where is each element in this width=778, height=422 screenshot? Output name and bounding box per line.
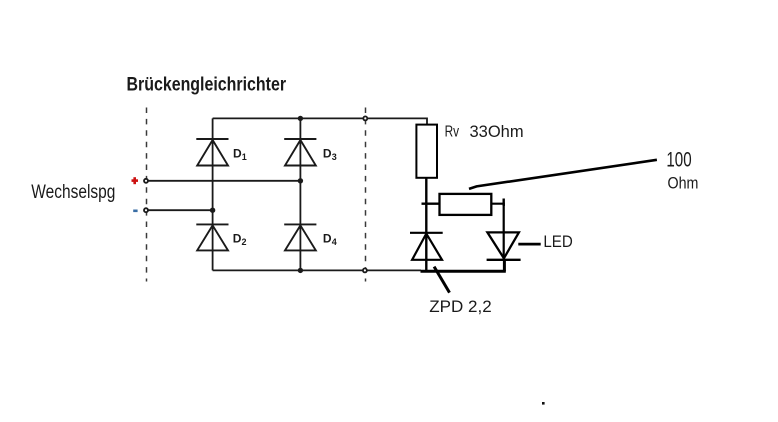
pointer line to LED label [518,243,540,246]
svg-text:D: D [323,232,332,246]
dashed boundary line left [146,108,148,282]
svg-text:Wechselspg: Wechselspg [31,180,115,202]
svg-text:ZPD 2,2: ZPD 2,2 [429,297,491,316]
wire: thick bottom rail right section [421,270,506,273]
svg-text:Brückengleichrichter: Brückengleichrichter [127,73,287,95]
minus polarity mark [133,210,137,213]
terminal circle - [144,208,148,212]
svg-text:D: D [323,147,332,161]
wire: top rail [213,118,427,124]
LED diode [487,232,521,259]
svg-text:LED: LED [543,232,572,251]
junction dot + node [298,178,303,183]
zener diode ZPD 2,2 [410,233,443,260]
diode D2 [196,224,228,250]
wire: LED cathode stub to bottom rail [503,260,506,272]
terminal circle + [144,179,148,183]
diode D4 [284,224,316,250]
resistor 100 Ohm [440,194,492,215]
svg-text:D: D [233,147,242,161]
svg-text:Rv: Rv [445,122,459,140]
wire: left bridge column [212,118,214,270]
wire: 100 Ohm right to LED top [491,204,503,260]
stray ink dot [542,402,545,405]
terminal circle DC bottom [363,268,367,272]
dashed boundary line right [365,108,367,282]
svg-text:3: 3 [332,152,337,162]
svg-text:Ohm: Ohm [668,174,699,192]
junction dot - node [210,208,215,213]
svg-text:1: 1 [242,152,247,162]
terminal circle DC top [363,116,367,120]
resistor Rv [416,125,437,178]
diode D3 [284,139,316,166]
wire: - terminal to node at left column [148,209,213,211]
junction dot top right column [298,116,303,121]
svg-text:4: 4 [332,237,337,247]
junction dot bottom right column [298,268,303,273]
svg-text:D: D [233,232,242,246]
plus polarity mark [132,177,139,184]
pointer line to ZPD label [434,267,449,293]
svg-text:2: 2 [242,237,247,247]
wire: right bridge column [299,118,301,270]
wire: junction tick to 100 Ohm resistor [422,202,441,204]
pointer line to 100 Ohm label [469,160,657,189]
wire: + terminal to node at right column [148,180,300,182]
diode D1 [196,139,228,166]
svg-text:100: 100 [666,147,691,171]
wire: bottom rail [213,269,421,271]
svg-text:33Ohm: 33Ohm [470,123,524,141]
wire: Rv bottom to zener [425,178,427,271]
